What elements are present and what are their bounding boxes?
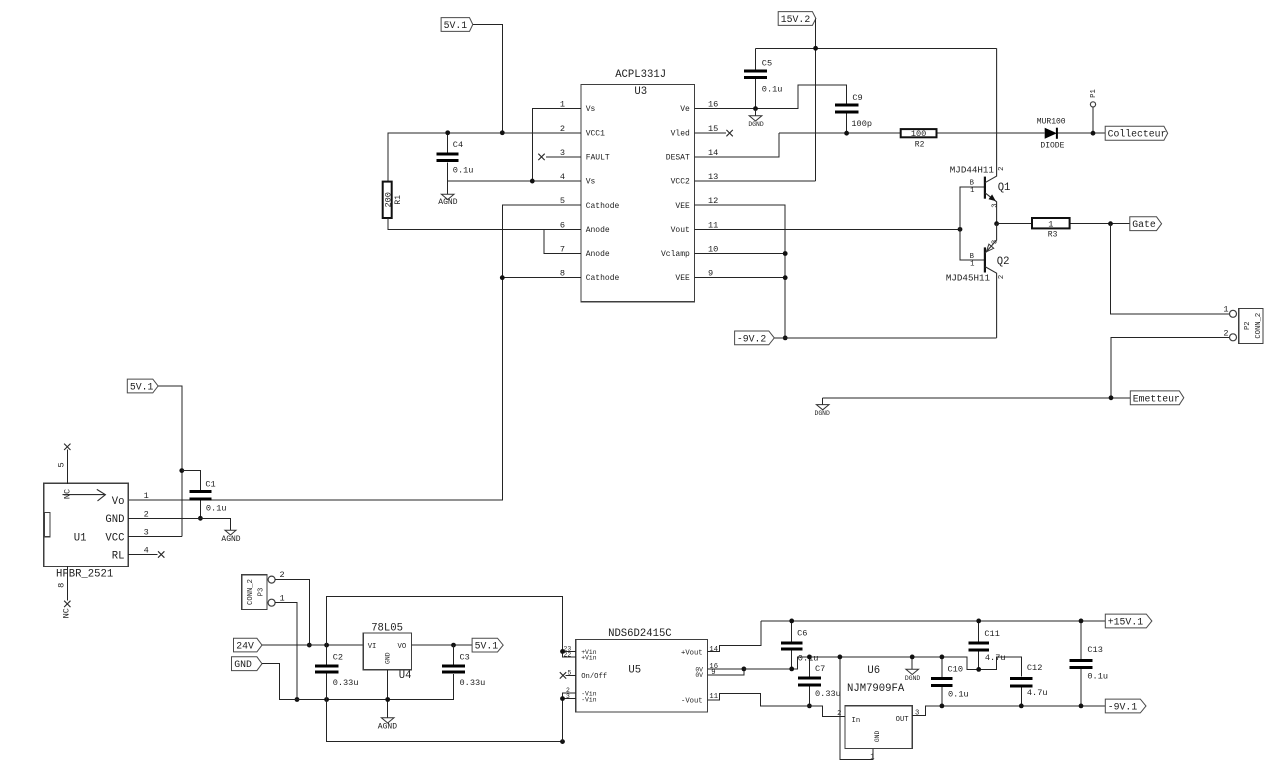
resistor R3 1 (1032, 218, 1070, 240)
svg-text:Vs: Vs (586, 105, 596, 114)
junction +Vin (560, 649, 565, 654)
resistor R2 100 (901, 129, 937, 149)
junction C13 bottom (1079, 704, 1084, 709)
svg-text:5: 5 (57, 462, 67, 467)
svg-text:Anode: Anode (586, 226, 610, 235)
svg-text:GND: GND (105, 514, 124, 526)
svg-text:C9: C9 (852, 93, 862, 103)
svg-text:RL: RL (112, 550, 125, 562)
svg-text:GND: GND (385, 652, 392, 664)
wire pin9 VEE (695, 277, 786, 279)
wire GND rect loop to U5 -Vin (327, 700, 563, 742)
svg-text:Vs: Vs (586, 178, 596, 187)
svg-text:1: 1 (144, 491, 149, 501)
svg-text:2: 2 (280, 570, 285, 580)
svg-text:VO: VO (398, 643, 407, 651)
svg-text:AGND: AGND (438, 198, 457, 207)
svg-text:Anode: Anode (586, 250, 610, 259)
svg-text:22: 22 (564, 651, 572, 658)
junction DGND (910, 655, 915, 660)
svg-text:Collecteur: Collecteur (1108, 129, 1167, 140)
connector P3 CONN_2 (242, 570, 285, 610)
svg-text:Vo: Vo (112, 496, 125, 508)
svg-text:-9V.2: -9V.2 (737, 333, 767, 344)
U3 right pin numbers 16-9 (708, 100, 718, 279)
U5 left pin numbers (564, 646, 572, 700)
svg-text:OUT: OUT (896, 716, 910, 724)
svg-text:0V: 0V (695, 672, 703, 679)
power DGND right of U6 (905, 657, 921, 682)
svg-text:4.7u: 4.7u (985, 653, 1006, 663)
svg-text:C11: C11 (984, 629, 999, 639)
opto-coupler U3 ACPL331J body (581, 69, 695, 302)
transistor Q1 MJD44H11 NPN (950, 48, 1011, 223)
wire P3 pin1 to GND row (275, 603, 297, 700)
svg-text:5V.1: 5V.1 (475, 641, 499, 652)
svg-text:C13: C13 (1087, 645, 1102, 655)
wire 0V DGND zigzag rail (744, 657, 1021, 677)
svg-text:DGND: DGND (905, 675, 921, 682)
svg-text:0.33u: 0.33u (460, 678, 486, 688)
power DGND below Ve wire (748, 109, 764, 129)
svg-text:200: 200 (384, 192, 394, 207)
svg-text:0.1u: 0.1u (453, 166, 474, 176)
svg-text:8: 8 (57, 583, 67, 588)
svg-text:R2: R2 (915, 140, 925, 149)
junction C10 bottom (940, 704, 945, 709)
svg-text:C7: C7 (815, 664, 825, 674)
pin15 Vled stub (695, 132, 727, 134)
svg-text:R1: R1 (394, 195, 403, 205)
junction pin10 on VEE bus (783, 251, 788, 256)
svg-text:-Vin: -Vin (581, 696, 597, 703)
svg-text:C1: C1 (205, 479, 215, 489)
capacitor C6 0.1u (781, 621, 818, 669)
wire branch pin7 Anode (544, 229, 581, 253)
hierarchical label Emetteur (1130, 391, 1184, 405)
svg-text:0.33u: 0.33u (333, 678, 359, 688)
wire pin4 Vs row (448, 180, 581, 182)
svg-text:VCC: VCC (105, 532, 124, 544)
svg-text:1: 1 (280, 593, 285, 603)
svg-text:78L05: 78L05 (371, 623, 403, 635)
svg-text:DGND: DGND (815, 410, 831, 417)
pin3 FAULT stub (546, 156, 581, 158)
regulator U6 NJM7909FA body (837, 665, 919, 762)
wire -9V.2 row (774, 337, 996, 339)
wire pin16 Ve row (695, 85, 847, 109)
svg-text:DIODE: DIODE (1040, 142, 1064, 151)
svg-text:NC: NC (62, 608, 72, 618)
svg-text:24V: 24V (236, 641, 254, 652)
svg-text:U5: U5 (628, 664, 641, 676)
U3 left pin names (586, 105, 620, 283)
svg-text:On/Off: On/Off (581, 673, 607, 681)
junction C1 branch (179, 468, 184, 473)
wire Emetteur row (823, 397, 1131, 399)
wire VCC1 row to R1 top (388, 133, 581, 182)
wire U5 +Vin stubs (563, 651, 576, 656)
U5 right pin numbers (709, 646, 718, 701)
svg-text:Cathode: Cathode (586, 202, 620, 211)
wire 15V.2 riser down to pin13 VCC2 (695, 19, 816, 182)
svg-text:Vled: Vled (671, 129, 690, 138)
capacitor C7 0.33u (798, 657, 841, 706)
svg-text:R3: R3 (1048, 231, 1058, 240)
wire pin1 Vs to pin4 (532, 109, 581, 181)
wire Gate to P2 pin1 (1111, 224, 1229, 314)
capacitor C12 4.7u (1010, 663, 1048, 706)
wire pin11 Vout to base bus (695, 228, 961, 230)
diode D MUR100 (1037, 117, 1066, 150)
svg-text:NJM7909FA: NJM7909FA (847, 683, 905, 695)
wire -Vout to U6 In (707, 693, 845, 716)
svg-text:5V.1: 5V.1 (444, 20, 468, 31)
wire pin10 Vclamp (695, 253, 786, 255)
svg-text:MUR100: MUR100 (1037, 117, 1066, 126)
svg-text:Q2: Q2 (997, 256, 1010, 268)
svg-text:GND: GND (234, 659, 252, 670)
wire DESAT row to R2 (779, 132, 1105, 134)
svg-text:Ve: Ve (680, 105, 690, 114)
wire pin12 VEE down to -9V.2 (695, 205, 786, 338)
svg-text:1: 1 (870, 753, 874, 761)
svg-text:NDS6D2415C: NDS6D2415C (608, 628, 672, 640)
power AGND below C4 (438, 181, 457, 207)
wire U6 GND loop (840, 657, 873, 760)
svg-text:U1: U1 (74, 533, 87, 545)
wire U4 VO row (412, 644, 473, 646)
junction P3 pin1 (295, 697, 300, 702)
junction C1 bottom on GND row (198, 516, 203, 521)
power AGND below U4 (378, 718, 397, 732)
hierarchical label 24V (234, 638, 263, 652)
svg-text:Vout: Vout (671, 226, 690, 235)
junction C2 bottom (324, 697, 329, 702)
junction C9 bottom (844, 131, 849, 136)
dcdc U5 NDS6D2415C body (576, 628, 708, 712)
U1 pin5 no-connect top (57, 444, 71, 484)
svg-text:HFBR_2521: HFBR_2521 (56, 569, 113, 581)
svg-text:C12: C12 (1027, 663, 1042, 673)
svg-text:0.1u: 0.1u (206, 503, 227, 513)
junction -Vin bottom (560, 739, 565, 744)
svg-text:DESAT: DESAT (666, 154, 690, 163)
svg-text:3: 3 (991, 240, 999, 244)
svg-text:ACPL331J: ACPL331J (615, 69, 666, 81)
svg-text:0.33u: 0.33u (815, 689, 841, 699)
U1 pin4 RL stub (128, 554, 158, 556)
junction C11 bottom (976, 667, 981, 672)
junction pin1/pin4 (530, 179, 535, 184)
svg-text:+Vout: +Vout (681, 649, 703, 657)
svg-text:C4: C4 (453, 140, 463, 150)
optical receiver U1 HFBR_2521 body (44, 483, 128, 580)
wire pin5/pin8 Cathode chain down to U1 Vo (128, 205, 581, 500)
hierarchical label -9V.1 (1105, 699, 1146, 713)
connector pin P1 (1090, 89, 1098, 133)
no-connect X pin3 (538, 154, 544, 160)
wire 15V.2 rail (756, 47, 997, 49)
svg-text:DGND: DGND (748, 121, 764, 128)
hierarchical label Collecteur (1105, 126, 1168, 140)
svg-text:Vclamp: Vclamp (661, 250, 690, 259)
capacitor C2 0.33u (315, 645, 359, 699)
svg-text:3: 3 (991, 203, 999, 207)
junction C13 top (1079, 619, 1084, 624)
wire U6 OUT to -9V rail (912, 706, 1105, 715)
U5 On/Off stub (566, 674, 576, 676)
svg-text:Gate: Gate (1132, 219, 1156, 230)
junction C4 top (445, 130, 450, 135)
power DGND at Emetteur wire (815, 398, 831, 417)
wire U5 -Vin stubs (563, 693, 576, 742)
resistor R1 200 (383, 182, 403, 218)
svg-text:1: 1 (1223, 305, 1228, 315)
svg-text:P2: P2 (1244, 321, 1252, 330)
junction -Vin pin3 (560, 696, 565, 701)
svg-text:2: 2 (998, 167, 1006, 171)
svg-text:Emetteur: Emetteur (1133, 393, 1180, 404)
junction 5V.1 riser on VCC1 (500, 130, 505, 135)
capacitor C13 0.1u (1070, 621, 1108, 706)
junction C5 bottom on Ve (753, 106, 758, 111)
svg-text:AGND: AGND (378, 723, 397, 732)
svg-text:AGND: AGND (221, 535, 240, 544)
wire base bus Q1/Q2 (960, 187, 985, 260)
svg-text:NC: NC (62, 489, 72, 499)
junction C6 top (789, 619, 794, 624)
wire U4 GND to AGND (387, 670, 389, 718)
junction P3 pin2 (307, 643, 312, 648)
svg-text:Cathode: Cathode (586, 274, 620, 283)
junction C11 top (976, 619, 981, 624)
hierarchical label Gate (1130, 217, 1162, 231)
svg-text:C6: C6 (797, 629, 807, 639)
U1 pin names (105, 496, 124, 563)
junction C7 top (807, 655, 812, 660)
svg-text:C3: C3 (460, 652, 470, 662)
hierarchical label 5V.1 (U4 out) (472, 638, 503, 652)
wire P2 pin2 to Emetteur (1111, 337, 1229, 398)
capacitor C5 0.1u (744, 48, 782, 108)
svg-text:VCC2: VCC2 (671, 178, 690, 187)
capacitor C1 0.1u (182, 471, 227, 519)
junction 0V (742, 667, 747, 672)
svg-text:FAULT: FAULT (586, 154, 610, 163)
svg-text:+15V.1: +15V.1 (1108, 617, 1143, 628)
svg-text:C10: C10 (948, 665, 963, 675)
junction U6 GND riser (838, 655, 843, 660)
wire pin14 DESAT riser (695, 133, 780, 157)
svg-text:2: 2 (998, 275, 1006, 279)
junction U4 GND on GND row (385, 697, 390, 702)
wire output to R3 (997, 223, 1130, 225)
svg-text:U4: U4 (399, 670, 412, 682)
regulator U4 78L05 body (363, 623, 411, 682)
capacitor C10 0.1u (931, 657, 969, 706)
hierarchical label GND (232, 657, 263, 671)
svg-text:GND: GND (874, 730, 881, 742)
svg-text:VI: VI (368, 643, 377, 651)
capacitor C4 0.1u (437, 133, 474, 181)
U3 right pin names (661, 105, 690, 283)
svg-text:-9V.1: -9V.1 (1108, 702, 1138, 713)
junction pin8 Cathode (500, 275, 505, 280)
svg-text:14: 14 (709, 646, 718, 654)
junction C12 bottom (1019, 704, 1024, 709)
junction Gate riser (1108, 221, 1113, 226)
capacitor C9 100p (835, 93, 872, 133)
svg-text:Q1: Q1 (998, 182, 1011, 194)
svg-text:2: 2 (1223, 329, 1228, 339)
svg-text:In: In (852, 717, 861, 725)
svg-text:C2: C2 (333, 652, 343, 662)
wire 24V rect loop to U5 +Vin (327, 597, 563, 652)
junction pin9 on VEE bus (783, 275, 788, 280)
svg-text:VEE: VEE (675, 274, 690, 283)
junction VEE bus on -9V.2 (783, 336, 788, 341)
hierarchical label +15V.1 (1105, 614, 1152, 628)
wire U5 0V stubs (707, 669, 744, 675)
svg-text:1: 1 (970, 187, 974, 195)
svg-text:5V.1: 5V.1 (130, 382, 154, 393)
svg-text:15V.2: 15V.2 (781, 14, 811, 25)
wire 24V row to U4 VI (262, 644, 363, 646)
U1 pin8 no-connect bottom (57, 566, 72, 618)
svg-text:P3: P3 (257, 588, 265, 597)
junction Emetteur riser (1109, 395, 1114, 400)
junction C3 top (451, 643, 456, 648)
junction 15V.2 rail (813, 46, 818, 51)
power AGND below U1 GND (221, 530, 240, 544)
wire R1 bottom to pin6 Anode (388, 218, 581, 229)
junction base bus (958, 227, 963, 232)
svg-text:C5: C5 (762, 59, 772, 69)
svg-text:MJD44H11: MJD44H11 (950, 164, 995, 175)
svg-text:U6: U6 (867, 665, 880, 677)
transistor Q2 MJD45H11 PNP (946, 224, 1010, 338)
wire P3 pin2 to 24V row (275, 580, 309, 646)
svg-text:1: 1 (1048, 219, 1053, 229)
svg-text:100p: 100p (851, 119, 872, 129)
svg-text:VCC1: VCC1 (586, 129, 605, 138)
capacitor C11 4.7u (968, 621, 1005, 670)
svg-text:CONN_2: CONN_2 (247, 579, 255, 605)
no-connect X RL (158, 551, 164, 557)
no-connect X pin15 (726, 130, 732, 136)
junction C10 top (940, 655, 945, 660)
hierarchical label 5V.1 (top) (441, 18, 473, 32)
junction C6 bottom (789, 667, 794, 672)
wire 5V.1 down to VCC pin3 (128, 386, 182, 536)
svg-text:9: 9 (711, 669, 715, 677)
svg-text:0.1u: 0.1u (948, 689, 969, 699)
junction C7 bottom (807, 704, 812, 709)
svg-text:1: 1 (970, 260, 974, 268)
hierarchical label -9V.2 (735, 331, 775, 345)
svg-text:0.1u: 0.1u (762, 84, 783, 94)
connector P2 CONN_2 (1223, 305, 1263, 344)
junction C2 top (324, 643, 329, 648)
wire GND pin2 row (128, 518, 231, 530)
svg-text:100: 100 (911, 129, 926, 139)
svg-text:-Vout: -Vout (681, 697, 703, 705)
no-connect X On/Off (560, 672, 566, 678)
svg-text:4.7u: 4.7u (1027, 688, 1048, 698)
capacitor C3 0.33u (442, 645, 485, 688)
svg-text:0.1u: 0.1u (1087, 671, 1108, 681)
hierarchical label 5V.1 (U1) (127, 379, 158, 393)
svg-text:VEE: VEE (675, 202, 690, 211)
wire +Vout riser (707, 621, 761, 652)
U1 pin numbers (144, 491, 149, 555)
junction Q1/Q2 emitters output (994, 221, 999, 226)
hierarchical label 15V.2 (778, 12, 816, 26)
svg-text:P1: P1 (1090, 89, 1098, 98)
junction P1 on collecteur wire (1091, 131, 1096, 136)
wire +15V rail (761, 620, 1105, 622)
svg-text:+Vin: +Vin (581, 655, 597, 662)
svg-text:3: 3 (915, 709, 919, 717)
wire GND label to GND row to C3 bottom (262, 664, 454, 700)
svg-text:U3: U3 (634, 86, 647, 98)
svg-text:CONN_2: CONN_2 (1255, 313, 1263, 339)
wire 5V.1 to VCC1 (473, 25, 503, 133)
svg-text:MJD45H11: MJD45H11 (946, 273, 991, 284)
U3 left pin numbers 1-8 (560, 100, 565, 279)
